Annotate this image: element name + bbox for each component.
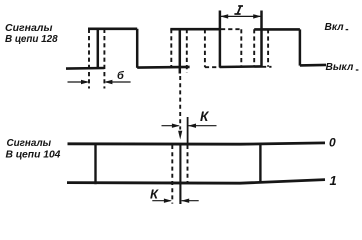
wire: solid nominal data transition bbox=[179, 144, 181, 204]
wire: dashed late rising edge 3 bbox=[267, 29, 269, 67]
wire: circuit-128 high level pulse 3 bbox=[254, 28, 300, 31]
wire: left cell boundary of data signal bbox=[94, 145, 96, 184]
svg-text:Вкл: Вкл bbox=[325, 22, 345, 33]
dimension б: right arrow line bbox=[106, 81, 131, 83]
svg-text:1: 1 bbox=[330, 173, 337, 188]
wire: circuit-128 low level segment 2 bbox=[137, 66, 189, 69]
wire: circuit-128 low level end segment bbox=[300, 64, 326, 67]
wire: dashed early rising edge 3 bbox=[253, 29, 255, 67]
wire: circuit-104 zero level line bbox=[68, 143, 326, 144]
wire: dashed early rising edge 2 bbox=[170, 29, 172, 67]
wire: dashed early rising edge 1 bbox=[88, 29, 90, 89]
wire: circuit-104 one level line bbox=[67, 180, 325, 184]
dimension б: left arrow line bbox=[68, 81, 88, 83]
label: Сигналы в цепи 104 bbox=[6, 138, 61, 161]
svg-text:В цепи 128: В цепи 128 bbox=[5, 34, 58, 45]
dimension K upper: right arrow line bbox=[188, 125, 216, 127]
wire: circuit-128 high level pulse 1 bbox=[88, 27, 137, 30]
wire: dashed high-level extension after fall 2 bbox=[221, 28, 241, 30]
wire: dashed low-level extension before fall 2 bbox=[205, 66, 220, 68]
svg-text:0: 0 bbox=[329, 135, 336, 149]
wire: solid right boundary of upper K dimension bbox=[187, 117, 189, 145]
svg-text:Выкл: Выкл bbox=[326, 62, 354, 73]
wire: solid rising edge 3 with dimension tick bbox=[260, 11, 263, 67]
wire: dashed vertical connector from rise 2 down to data transition bbox=[179, 76, 181, 130]
wire: circuit-128 low level start segment bbox=[66, 67, 104, 70]
label: I (stop pulse length) bbox=[234, 6, 243, 14]
svg-text:К: К bbox=[200, 109, 210, 124]
dimension K lower: right arrow line bbox=[182, 200, 199, 202]
wire: dashed early falling edge 2 bbox=[204, 29, 206, 67]
dimension I: arrow line between fall 2 and rise 3 bbox=[221, 15, 261, 17]
wire: circuit-128 high level pulse 2 bbox=[170, 28, 220, 31]
arrowhead: connector pointing down at data signal bbox=[178, 131, 182, 140]
wire: solid falling edge 3 bbox=[299, 29, 302, 65]
svg-text:Сигналы: Сигналы bbox=[7, 138, 52, 149]
wire: solid falling edge 1 bbox=[136, 29, 139, 68]
wire: solid rising edge 2 bbox=[179, 29, 182, 74]
wire: dashed late data transition bbox=[187, 145, 189, 183]
wire: dashed late rising edge 1 bbox=[103, 29, 105, 89]
wire: middle cell boundary of data signal bbox=[259, 143, 261, 181]
svg-text:б: б bbox=[117, 70, 125, 82]
wire: dashed early data transition bbox=[171, 145, 173, 204]
svg-text:В цепи 104: В цепи 104 bbox=[6, 150, 61, 161]
wire: dashed low-level extension after rise 3 bbox=[262, 66, 272, 68]
svg-text:Сигналы: Сигналы bbox=[5, 22, 52, 34]
wire: solid falling edge 2 with dimension tick bbox=[219, 11, 222, 68]
wire: circuit-128 low level segment 3 bbox=[220, 65, 262, 68]
dimension K upper: left arrow line bbox=[162, 125, 179, 127]
svg-text:К: К bbox=[150, 187, 159, 202]
wire: dashed late falling edge 2 bbox=[240, 29, 242, 67]
wire: solid rising edge 1 bbox=[97, 29, 100, 69]
wire: dashed late rising edge 2 bbox=[186, 29, 188, 73]
dimension K lower: left arrow line bbox=[152, 200, 170, 202]
label: Сигналы в цепи 128 bbox=[5, 22, 58, 45]
